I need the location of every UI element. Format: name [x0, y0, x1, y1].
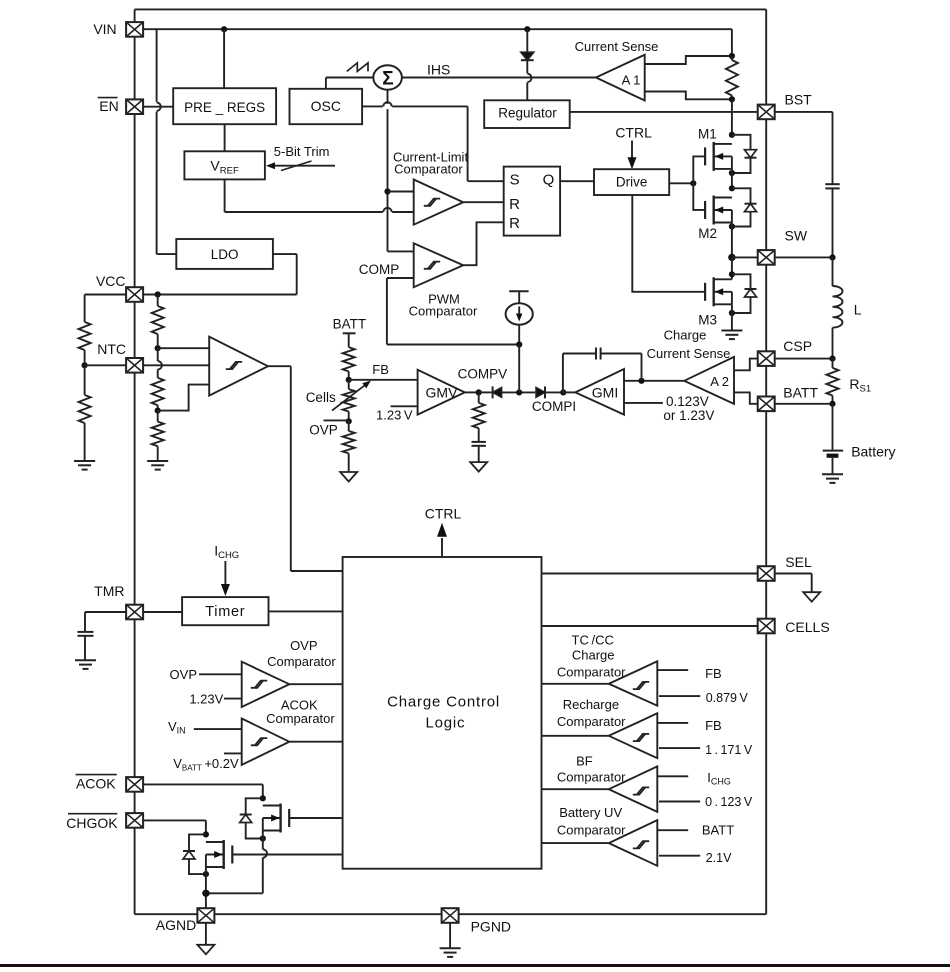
svg-text:FB: FB — [705, 718, 722, 733]
junction dot compensation center — [516, 389, 522, 395]
diode M3 body — [732, 274, 757, 313]
wire sigma output IHS — [402, 77, 596, 79]
label 0.123V or 1.23V — [663, 394, 714, 423]
label ACOK (active low) — [76, 775, 117, 792]
junction dot VCC divider top — [155, 291, 161, 297]
wire VBATT+0.2V input stub — [224, 752, 242, 754]
svg-text:0.879 V: 0.879 V — [706, 691, 749, 705]
svg-text:Timer: Timer — [205, 604, 245, 620]
svg-text:R: R — [509, 215, 520, 232]
amplifier GMV — [418, 370, 465, 415]
wire ACOK pin to FET drain — [144, 784, 263, 798]
wire Timer output to charge control logic — [269, 610, 343, 612]
summer sigma — [373, 65, 402, 89]
wire bootstrap cap to SW node — [832, 188, 834, 257]
wire gate node to M1 gate — [693, 156, 705, 183]
ground AGND — [197, 945, 214, 955]
sawtooth waveform symbol — [347, 63, 368, 72]
ground TMR — [75, 660, 96, 669]
current source bias — [506, 291, 533, 344]
label BF Comparator — [557, 754, 626, 785]
svg-text:OVP: OVP — [170, 667, 197, 682]
svg-text:1.23V: 1.23V — [189, 692, 223, 707]
pin CSP — [758, 351, 775, 366]
wire CSP pin to RS1 top — [775, 358, 833, 360]
junction dot sigma riser / current-limit input — [384, 188, 390, 194]
pin VCC — [126, 287, 143, 302]
wire hop VREF line over sigma riser — [383, 208, 392, 215]
wire COMPV to diode — [479, 391, 493, 393]
svg-text:Comparator: Comparator — [557, 823, 626, 838]
comparator current-limit — [414, 180, 464, 225]
resistor R sense — [726, 56, 738, 99]
wire COMP node to compensation node — [387, 278, 519, 345]
resistor NTC pulldown external — [79, 365, 91, 461]
supply bar BATT — [343, 333, 356, 347]
svg-text:A 1: A 1 — [622, 72, 641, 87]
svg-text:Current Sense: Current Sense — [575, 39, 659, 54]
svg-text:Comparator: Comparator — [394, 162, 463, 177]
wire recharge input 1.171V — [659, 747, 700, 749]
junction dot AGND node — [202, 890, 209, 897]
svg-text:Recharge: Recharge — [563, 697, 619, 712]
wire BST line from regulator — [570, 111, 758, 113]
junction dot COMPI — [560, 389, 566, 395]
wire VREF to current-limit comparator — [225, 179, 414, 212]
svg-text:PGND: PGND — [471, 919, 511, 935]
svg-text:Logic: Logic — [425, 714, 465, 731]
comparator TC/CC charge — [609, 661, 658, 705]
wire CELLS from logic — [542, 625, 758, 627]
svg-text:Comparator: Comparator — [409, 304, 478, 319]
wire SEL from logic — [542, 573, 758, 575]
junction dot COMPV — [476, 389, 482, 395]
wire diode to center node — [502, 391, 536, 393]
wire ACOK FET gate to logic — [289, 817, 342, 819]
wire M1 source to M2 drain — [731, 169, 733, 188]
wire PRE_REGS to VREF — [224, 124, 226, 151]
pin BATT — [758, 397, 775, 412]
svg-text:or 1.23V: or 1.23V — [663, 408, 714, 423]
battery symbol — [823, 404, 843, 475]
arrow CTRL out of logic — [437, 523, 447, 557]
wire hop ACOK source over CHGOK gate wire — [263, 849, 267, 857]
wire 1.23V input to GMV — [391, 405, 418, 407]
junction dot M1 source — [729, 170, 735, 176]
wire Drive to M3 gate — [632, 195, 705, 292]
wire hop regulator feed over IHS — [527, 74, 531, 82]
wire CHGOK FET source to AGND node — [205, 867, 207, 909]
junction dot gate drive node — [690, 180, 696, 186]
svg-text:0 . 123 V: 0 . 123 V — [705, 795, 753, 809]
ground internal divider — [147, 461, 168, 470]
wire M2 source to SW node — [731, 223, 733, 258]
wire LDO output to VCC net — [144, 254, 297, 294]
wire OVP comparator output — [289, 683, 342, 685]
wire ACOK comparator output — [289, 741, 342, 743]
transistor M3 — [705, 277, 732, 306]
block SR latch — [504, 167, 560, 236]
potentiometer Cells — [332, 380, 371, 422]
svg-text:Σ: Σ — [382, 68, 393, 89]
wire battery UV input 2.1V — [659, 855, 700, 857]
svg-text:GMI: GMI — [592, 385, 618, 401]
junction dot ACOK FET drain — [260, 795, 266, 801]
comparator NTC — [209, 337, 268, 396]
wire diode to COMPI — [545, 391, 563, 393]
junction dot VIN/PRE_REGS branch — [221, 26, 227, 32]
label Recharge Comparator — [557, 697, 626, 729]
svg-text:Charge Control: Charge Control — [387, 694, 500, 711]
svg-text:LDO: LDO — [211, 247, 239, 262]
wire TMR pin to Timer — [144, 611, 183, 613]
wire battery UV output to logic — [542, 842, 609, 844]
wire OSC to sigma summer — [326, 78, 373, 89]
wire BST to bootstrap cap — [775, 112, 833, 184]
svg-text:CELLS: CELLS — [785, 619, 829, 635]
svg-text:Drive: Drive — [616, 175, 648, 190]
svg-text:1 . 171 V: 1 . 171 V — [705, 743, 753, 757]
wire CHGOK FET gate to logic — [232, 854, 342, 856]
wire VCC pin to external divider — [85, 294, 127, 296]
op-amp A2 — [684, 357, 734, 404]
svg-text:CTRL: CTRL — [425, 506, 462, 522]
transistor ACOK open-drain — [263, 804, 289, 833]
wire PRE_REGS supply riser — [223, 29, 225, 88]
junction dot NTC external node — [82, 362, 88, 368]
arrow CTRL into Drive — [628, 141, 637, 170]
label PWM Comparator — [409, 291, 478, 318]
svg-text:Comparator: Comparator — [266, 711, 335, 726]
wire recharge input FB — [657, 722, 688, 724]
junction dot ACOK FET source — [260, 835, 266, 841]
svg-text:0.123V: 0.123V — [666, 394, 709, 409]
label ACOK Comparator — [266, 697, 335, 725]
diode ACOK FET body — [240, 798, 263, 838]
svg-text:BF: BF — [576, 754, 593, 769]
svg-text:Comparator: Comparator — [557, 770, 626, 785]
junction dot OVP node — [346, 418, 352, 424]
wire hop on LDO riser over EN wire — [154, 102, 161, 112]
label OVP Comparator — [267, 638, 336, 669]
junction dot M3 source — [729, 310, 735, 316]
capacitor TMR — [78, 632, 94, 636]
wire tap2 to comparator input — [158, 385, 210, 411]
comparator PWM — [414, 243, 464, 287]
wire M3 source to ground — [731, 304, 733, 330]
wire TMR pin to timer cap — [85, 612, 126, 632]
pin ACOK — [126, 777, 143, 792]
resistor internal divider R2 — [152, 348, 164, 410]
pin VIN — [126, 22, 143, 37]
svg-text:GMV: GMV — [426, 385, 459, 401]
wire COMPI to GMI — [563, 391, 575, 393]
label Charge Current Sense — [647, 328, 731, 362]
junction dot RS1 top — [829, 356, 835, 362]
wire NTC comparator output to charge control logic — [268, 366, 343, 571]
label TC/CC Charge Comparator — [557, 632, 626, 679]
pin NTC — [126, 358, 143, 373]
junction dot M2 drain — [729, 185, 735, 191]
capacitor COMPV compensation — [472, 442, 486, 446]
svg-text:OVP: OVP — [309, 423, 338, 438]
svg-text:M1: M1 — [698, 127, 717, 142]
label Current-Limit Comparator — [393, 150, 469, 177]
resistor internal divider R1 — [152, 295, 164, 349]
svg-text:Battery UV: Battery UV — [559, 805, 622, 820]
pin CELLS — [758, 619, 775, 634]
svg-text:Battery: Battery — [851, 444, 895, 460]
junction dot FB node — [346, 377, 352, 383]
wire hop OSC output over sigma riser — [383, 102, 392, 109]
svg-text:Current Sense: Current Sense — [647, 346, 731, 361]
svg-text:SW: SW — [785, 227, 808, 243]
pin CHGOK — [126, 813, 143, 828]
svg-text:R: R — [509, 196, 520, 213]
pin EN — [126, 99, 143, 114]
wire FB to GMV — [349, 379, 418, 381]
svg-text:S: S — [510, 172, 520, 189]
svg-text:CHGOK: CHGOK — [66, 815, 118, 831]
wire hop divider over NTC wire — [158, 361, 162, 369]
wire cap to ground — [478, 446, 480, 462]
resistor COMPV compensation — [473, 392, 485, 442]
svg-text:COMPV: COMPV — [458, 367, 508, 382]
wire OVP stub — [324, 419, 349, 421]
wire PGND to ground — [449, 923, 451, 949]
transistor CHGOK open-drain — [206, 840, 232, 869]
block VREF — [184, 151, 265, 179]
wire OSC output to S input — [362, 106, 504, 181]
svg-text:VIN: VIN — [93, 21, 116, 37]
junction dot CHGOK FET drain — [203, 831, 209, 837]
label Battery UV Comparator — [557, 805, 626, 838]
svg-text:COMP: COMP — [359, 262, 400, 277]
wire sense resistor to M1 drain — [731, 99, 733, 135]
svg-text:AGND: AGND — [156, 917, 196, 933]
svg-text:BATT: BATT — [783, 384, 818, 400]
wire tap1 to comparator input — [158, 347, 210, 349]
svg-text:PRE _ REGS: PRE _ REGS — [184, 100, 265, 115]
svg-text:BATT: BATT — [333, 316, 367, 331]
wire A1 upper input — [645, 56, 732, 64]
resistor feedback top — [343, 347, 355, 380]
wire CHGOK pin to FET drain — [144, 820, 206, 834]
pin PGND — [442, 908, 459, 923]
junction dot M3 drain — [729, 271, 735, 277]
block Regulator — [484, 100, 570, 128]
svg-text:CTRL: CTRL — [615, 125, 652, 141]
block PRE_REGS — [173, 88, 276, 124]
label CHGOK (active low) — [66, 814, 118, 832]
diode regulator feed D1 — [521, 29, 534, 100]
svg-text:Charge: Charge — [572, 648, 615, 663]
capacitor GMI feedback — [563, 348, 642, 393]
wire TC/CC input 0.879V — [659, 695, 700, 697]
wire recharge output to logic — [542, 735, 609, 737]
comparator OVP — [242, 662, 290, 707]
wire TMR cap to ground — [84, 636, 86, 661]
resistor internal divider R3 — [152, 411, 164, 461]
svg-text:TMR: TMR — [94, 583, 124, 599]
svg-text:CSP: CSP — [783, 338, 812, 354]
diode M1 body — [732, 135, 757, 173]
wire external node to NTC pin — [85, 364, 127, 366]
block Timer — [182, 597, 268, 625]
wire SW node to M3 drain — [731, 257, 733, 279]
comparator recharge — [609, 713, 658, 758]
wire A1 lower input — [645, 92, 732, 100]
page rule bottom — [0, 964, 950, 967]
wire SW node to pin — [732, 256, 758, 258]
junction dot sense resistor top — [729, 53, 735, 59]
junction dot M2 source — [729, 223, 735, 229]
svg-text:M2: M2 — [698, 226, 717, 241]
wire NTC pin to comparator — [144, 364, 210, 366]
wire A2 lower input to BATT — [734, 392, 758, 403]
ground M3 — [721, 331, 742, 340]
svg-text:ACOK: ACOK — [76, 775, 116, 791]
diode steering left — [493, 386, 502, 398]
junction dot VIN/regulator branch — [524, 26, 530, 32]
svg-text:Comparator: Comparator — [557, 714, 626, 729]
pin TMR — [126, 605, 143, 620]
trim arrow into VREF — [266, 161, 335, 171]
pin SW — [758, 250, 775, 265]
ground PGND — [440, 948, 461, 957]
block Charge Control Logic — [343, 557, 542, 869]
wire Q output to Drive — [560, 180, 594, 182]
block Drive — [594, 169, 669, 195]
svg-text:5-Bit Trim: 5-Bit Trim — [274, 144, 330, 159]
capacitor bootstrap — [825, 184, 839, 188]
block OSC — [290, 89, 363, 124]
svg-text:COMPI: COMPI — [532, 399, 576, 414]
svg-text:BST: BST — [785, 92, 813, 108]
svg-text:SEL: SEL — [785, 554, 812, 570]
svg-text:OSC: OSC — [311, 98, 341, 114]
svg-text:Comparator: Comparator — [267, 654, 336, 669]
wire GMI top input to A2 output — [624, 380, 684, 382]
junction dot SW/inductor — [829, 254, 835, 260]
pin BST — [758, 105, 775, 120]
svg-text:Regulator: Regulator — [498, 106, 557, 121]
wire VIN riser into LDO — [157, 253, 177, 255]
svg-text:Comparator: Comparator — [557, 665, 626, 680]
wire BATT pin to battery — [775, 403, 833, 405]
wire 1.23V input stub — [224, 698, 242, 700]
wire battery UV input BATT — [657, 829, 688, 831]
ground feedback divider — [340, 472, 357, 482]
wire gate node to M2 gate — [693, 183, 705, 210]
wire compensation node down — [518, 345, 520, 393]
wire BF output to logic — [542, 788, 609, 790]
wire GMI bottom input — [624, 402, 663, 404]
ground COMPV network — [470, 462, 487, 472]
ground external NTC divider — [74, 461, 95, 470]
wire TC/CC output to logic — [542, 683, 609, 685]
svg-text:EN: EN — [99, 98, 118, 114]
wire SW pin to inductor — [775, 256, 833, 258]
svg-text:L: L — [854, 302, 862, 318]
svg-text:2.1V: 2.1V — [706, 851, 732, 865]
ground battery — [822, 474, 843, 483]
wire ACOK FET source down — [206, 831, 263, 894]
svg-text:M3: M3 — [698, 313, 717, 328]
wire BF input ICHG — [657, 775, 688, 777]
junction dot divider tap 2 — [155, 408, 161, 414]
svg-text:A 2: A 2 — [710, 374, 729, 389]
svg-text:Q: Q — [543, 172, 555, 189]
arrow ICHG into Timer — [221, 561, 230, 596]
junction dot SW node — [728, 254, 735, 261]
resistor NTC pullup external — [79, 295, 91, 366]
comparator ACOK — [242, 719, 290, 765]
svg-text:IHS: IHS — [427, 62, 450, 78]
comparator battery UV — [609, 820, 658, 866]
wire VIN rail — [144, 29, 732, 254]
junction dot sense resistor bottom — [729, 96, 735, 102]
inductor L — [833, 257, 843, 358]
wire A2 upper input to CSP — [734, 359, 758, 371]
diode M2 body — [732, 188, 757, 226]
block LDO — [176, 239, 273, 269]
wire PWM output to R2 — [463, 222, 504, 265]
junction dot compensation/COMP — [516, 341, 522, 347]
resistor feedback bottom — [343, 421, 355, 472]
svg-text:NTC: NTC — [97, 341, 126, 357]
pin SEL — [758, 566, 775, 581]
diode steering right — [536, 386, 545, 398]
junction dot battery node — [829, 401, 835, 407]
wire BF input 0.123V — [659, 801, 700, 803]
resistor RS1 — [827, 359, 839, 404]
wire SEL pin to ground — [775, 574, 812, 593]
svg-text:FB: FB — [705, 666, 722, 681]
comparator BF — [609, 766, 658, 812]
svg-text:TC /CC: TC /CC — [572, 632, 614, 647]
wire AGND to ground — [205, 923, 207, 945]
wire current-limit output to R — [463, 201, 504, 203]
wire current-limit comparator top input — [388, 191, 414, 193]
diode CHGOK FET body — [183, 834, 206, 874]
junction dot CHGOK FET source — [203, 871, 209, 877]
wire VIN input — [194, 728, 242, 730]
ground SEL — [803, 592, 820, 602]
pin AGND — [197, 908, 214, 923]
wire TC/CC input FB — [657, 669, 688, 671]
wire VIN to current-sense resistor — [731, 29, 733, 56]
junction dot M1 drain — [729, 132, 735, 138]
transistor M2 — [705, 196, 732, 225]
svg-text:1.23 V: 1.23 V — [376, 408, 413, 423]
wire EN to PRE_REGS — [144, 106, 174, 108]
wire sigma riser to comparators — [387, 90, 389, 252]
wire sigma riser to PWM top input — [388, 250, 414, 252]
svg-text:VCC: VCC — [96, 273, 126, 289]
svg-text:FB: FB — [372, 362, 389, 377]
wire Drive output to gate node — [669, 182, 693, 184]
svg-text:Charge: Charge — [664, 328, 707, 343]
svg-text:OVP: OVP — [290, 638, 317, 653]
svg-text:Cells: Cells — [306, 390, 336, 405]
junction dot divider tap 1 — [155, 345, 161, 351]
op-amp A1 — [596, 55, 645, 101]
label EN (active low) — [98, 98, 119, 114]
wire OVP input — [199, 673, 242, 675]
transistor M1 — [705, 142, 732, 171]
IC boundary outline — [135, 9, 767, 914]
